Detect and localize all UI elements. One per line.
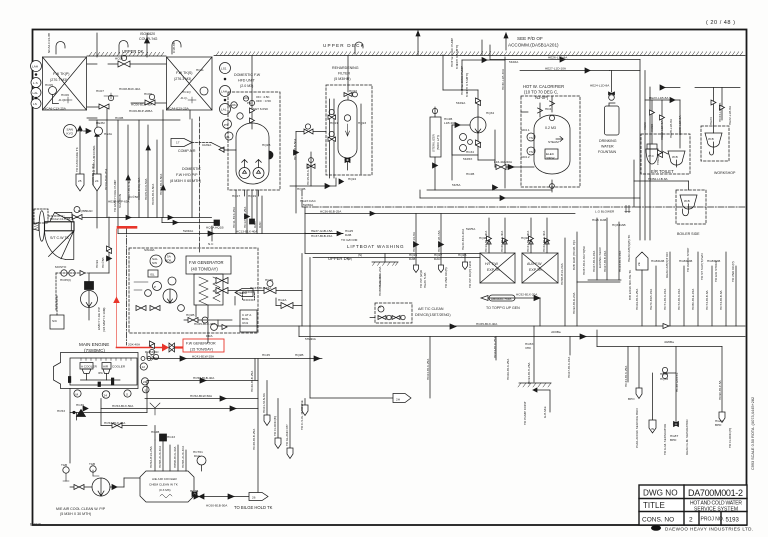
svg-text:SW: SW [152, 261, 157, 265]
valve pair on suction [72, 215, 82, 220]
svg-text:DAD: DAD [152, 350, 159, 354]
svg-text:HC65(I): HC65(I) [60, 278, 71, 282]
svg-text:COMP AIR: COMP AIR [178, 149, 196, 153]
engine outlet lines [70, 359, 258, 494]
svg-text:SUCTION: SUCTION [118, 194, 122, 208]
svg-text:5193: 5193 [726, 518, 740, 524]
svg-text:DRA: DRA [206, 334, 213, 338]
svg-text:HC11: HC11 [196, 68, 204, 72]
svg-text:EXP TK: EXP TK [529, 268, 542, 272]
svg-text:HQ34: HQ34 [486, 111, 494, 115]
ER toilet group [641, 98, 690, 175]
topping up line [481, 295, 540, 326]
svg-text:TO G.M. SEPARATOR: TO G.M. SEPARATOR [663, 423, 667, 455]
svg-text:STERILIZER: STERILIZER [432, 133, 436, 152]
svg-text:TO EM'CY FIRE PUMP: TO EM'CY FIRE PUMP [113, 180, 117, 212]
upper deck hatched line [87, 52, 745, 56]
svg-text:MCA2-C1X-6B: MCA2-C1X-6B [50, 217, 70, 221]
propeller / stern tube S/T CW TK [33, 211, 74, 260]
ME air cool clean pump [63, 466, 140, 496]
valve at red arrow [169, 343, 175, 352]
svg-text:EM'CY F.RE P/P: EM'CY F.RE P/P [97, 307, 101, 330]
svg-text:S: S [145, 389, 147, 393]
svg-text:5K45X: 5K45X [463, 157, 472, 161]
mid horizontal long lines [64, 190, 745, 258]
svg-text:T&B: T&B [89, 462, 95, 466]
svg-text:NCA4-E2X-25A: NCA4-E2X-25A [167, 107, 190, 111]
svg-text:COOLER: COOLER [112, 365, 126, 369]
bilge pentagon [192, 492, 268, 501]
svg-text:TO VACUUM COND.: TO VACUUM COND. [92, 145, 96, 174]
top hot water mains [490, 45, 650, 240]
svg-text:STEAM: STEAM [548, 140, 559, 144]
svg-text:DAB: DAB [686, 259, 692, 263]
svg-text:HQ2B: HQ2B [262, 143, 270, 147]
svg-text:(3/4 M3/H X 16M): (3/4 M3/H X 16M) [102, 308, 106, 332]
svg-text:HC4B: HC4B [151, 430, 159, 434]
svg-text:W.B: W.B [672, 155, 678, 159]
svg-text:HC87-B1C-8A HQ59: HC87-B1C-8A HQ59 [582, 246, 586, 275]
wire tank interconnects [87, 117, 97, 119]
svg-text:B/B E/CW 300.HG TK: B/B E/CW 300.HG TK [628, 269, 632, 300]
svg-text:HOT W. CALORIFIER: HOT W. CALORIFIER [523, 84, 564, 89]
svg-text:HE3A: HE3A [104, 132, 113, 136]
svg-text:HE27-L1D-10A: HE27-L1D-10A [545, 67, 567, 71]
svg-text:HE26-L1D-8A: HE26-L1D-8A [548, 56, 568, 60]
svg-text:TO G/D RM: TO G/D RM [341, 238, 358, 242]
svg-text:LS: LS [33, 102, 37, 106]
expansion tank AUX [522, 218, 558, 283]
svg-text:HC67-B1X-15A: HC67-B1X-15A [567, 356, 571, 378]
svg-text:HC63-B1X-15A: HC63-B1X-15A [618, 250, 622, 272]
svg-text:TS: TS [529, 136, 533, 140]
svg-text:(10 TO 70 DEG C,: (10 TO 70 DEG C, [524, 90, 558, 95]
svg-text:HC34: HC34 [466, 150, 474, 154]
svg-text:ISO 6620: ISO 6620 [140, 32, 155, 36]
svg-text:TO PUMP CONT: TO PUMP CONT [523, 401, 527, 425]
svg-text:AIR: AIR [103, 365, 109, 369]
rehardening filter [290, 56, 372, 214]
svg-text:SET 6.0SK: SET 6.0SK [253, 107, 269, 111]
svg-text:HC3B-B1B-15A: HC3B-B1B-15A [437, 229, 441, 252]
svg-text:24: 24 [143, 380, 147, 384]
svg-text:HC43: HC43 [167, 435, 175, 439]
svg-text:HC23-L1B-8A: HC23-L1B-8A [718, 102, 722, 122]
svg-text:T&B: T&B [61, 463, 67, 467]
svg-text:HE3M: HE3M [96, 121, 105, 125]
svg-text:HC39: HC39 [76, 403, 84, 407]
svg-text:DA700M001-2: DA700M001-2 [688, 488, 743, 498]
svg-text:TO C.S.W. MACHINE: TO C.S.W. MACHINE [300, 400, 304, 430]
svg-text:HE70-B1B-15A: HE70-B1B-15A [649, 288, 653, 310]
sankyo circle pair left [64, 125, 103, 138]
svg-text:HC67-B1B-15A: HC67-B1B-15A [603, 250, 607, 272]
svg-text:HQ19: HQ19 [248, 194, 256, 198]
svg-text:DOMESTIC F.W: DOMESTIC F.W [234, 73, 261, 77]
svg-text:DAD: DAD [253, 221, 257, 228]
2H pentagon [310, 358, 411, 403]
svg-text:C993 SCALE 0.50 ROTA. (X073,X4: C993 SCALE 0.50 ROTA. (X073,X445+282 [751, 397, 755, 470]
C AT A BOIL unit [240, 292, 257, 332]
svg-text:HE40-B1X-20A: HE40-B1X-20A [461, 228, 465, 250]
svg-text:HC46-B1B-25A: HC46-B1B-25A [250, 370, 254, 392]
AE air cooler chem clean tank [140, 403, 204, 502]
liftboat drains to deck [372, 214, 468, 273]
svg-text:HC13-B1X-40A: HC13-B1X-40A [236, 230, 258, 234]
svg-text:LAL: LAL [221, 108, 227, 112]
svg-text:WATER: WATER [601, 145, 614, 149]
svg-text:DAB: DAB [409, 257, 415, 261]
svg-text:HQ1A HQ1B: HQ1A HQ1B [206, 226, 224, 230]
svg-text:HC5A-B1X-25A: HC5A-B1X-25A [149, 445, 153, 468]
svg-text:N.C: N.C [208, 242, 214, 246]
svg-text:HC19-B1X-40A: HC19-B1X-40A [484, 230, 488, 252]
svg-text:S: S [126, 393, 128, 397]
svg-text:NCA6-C1X-25A: NCA6-C1X-25A [44, 107, 67, 111]
svg-text:F.W GENERATOR: F.W GENERATOR [189, 260, 224, 265]
svg-text:0.2 M3: 0.2 M3 [545, 126, 556, 130]
ground hatch pump cont [518, 383, 551, 412]
svg-text:HC4B: HC4B [190, 489, 198, 493]
svg-text:BOILER SIDE: BOILER SIDE [677, 232, 700, 236]
steam supply risers near calorifier [443, 55, 505, 180]
svg-text:HQ24: HQ24 [348, 177, 356, 181]
svg-text:HE22-L1B-8A: HE22-L1B-8A [728, 105, 732, 125]
svg-text:REAR A/B(S)T DO: REAR A/B(S)T DO [665, 252, 669, 278]
svg-text:FOUNTAIN: FOUNTAIN [598, 150, 617, 154]
svg-text:ACCOMM.(DA5B1A201): ACCOMM.(DA5B1A201) [508, 43, 559, 48]
svg-text:HC53-B1X-50A: HC53-B1X-50A [112, 404, 134, 408]
svg-text:OFF : 0.5K: OFF : 0.5K [256, 99, 272, 103]
comp air arrow [171, 139, 224, 150]
wire collector top [89, 119, 180, 121]
svg-text:HC67-B1X-15A: HC67-B1X-15A [592, 250, 596, 272]
svg-text:(S): (S) [358, 253, 362, 257]
svg-text:EASING SERV: EASING SERV [598, 246, 602, 268]
svg-text:PS: PS [247, 101, 251, 105]
svg-text:DAB: DAB [658, 259, 664, 263]
accomm boundary dash-dot [302, 206, 745, 208]
svg-text:5K/5A: 5K/5A [452, 183, 461, 187]
svg-text:LAL: LAL [33, 91, 39, 95]
svg-text:PURLACOW SERVICE BRO: PURLACOW SERVICE BRO [635, 408, 639, 448]
valves on tank lines [118, 61, 130, 67]
svg-text:DAB: DAB [600, 218, 606, 222]
svg-text:A03.2: A03.2 [230, 103, 238, 107]
flow arrows on verticals [126, 145, 165, 190]
svg-text:HC1Q: HC1Q [182, 90, 191, 94]
svg-text:8 M3/H X 5 MTH): 8 M3/H X 5 MTH) [455, 45, 459, 69]
svg-text:TITLE: TITLE [643, 501, 665, 510]
svg-text:(15 TON/DAY): (15 TON/DAY) [190, 348, 213, 352]
svg-text:TO FLOOR(H): TO FLOOR(H) [728, 428, 732, 448]
svg-text:2: 2 [689, 517, 693, 524]
svg-text:HC93-B1H-25A: HC93-B1H-25A [527, 362, 531, 384]
svg-text:HC38 G8/TBL: HC38 G8/TBL [675, 372, 679, 392]
svg-text:HEAV 5.3B: HEAV 5.3B [423, 273, 427, 288]
expansion tank M/T [480, 218, 515, 283]
svg-text:A03.: A03. [243, 96, 250, 100]
svg-text:AL: AL [226, 135, 230, 139]
svg-text:UPPER DK: UPPER DK [328, 256, 350, 261]
svg-text:SW40A: SW40A [144, 248, 155, 252]
svg-text:5W40A: 5W40A [183, 229, 194, 233]
svg-text:HG2A: HG2A [278, 298, 287, 302]
vertical drops right of engine [255, 359, 308, 459]
HC41 line [141, 341, 322, 361]
svg-text:HC5B-AUX-40A: HC5B-AUX-40A [158, 445, 162, 468]
svg-text:F.W GENERATOR: F.W GENERATOR [186, 342, 216, 346]
svg-text:HB5B-B1X-40A: HB5B-B1X-40A [173, 446, 177, 468]
svg-text:(7S80MC): (7S80MC) [84, 348, 105, 353]
svg-text:L.S: L.S [33, 81, 38, 85]
svg-text:LS1: LS1 [221, 67, 227, 71]
svg-text:(P): (P) [348, 257, 352, 261]
svg-text:N3-0P): N3-0P) [535, 95, 549, 100]
svg-text:HQ27: HQ27 [521, 236, 529, 240]
svg-text:HEAR A/B(S)(B) TK: HEAR A/B(S)(B) TK [627, 234, 631, 262]
svg-text:HC99: HC99 [95, 260, 99, 268]
svg-text:(5 M3/HR): (5 M3/HR) [334, 77, 351, 81]
svg-text:TS: TS [529, 150, 533, 154]
svg-text:HQ2B: HQ2B [458, 253, 466, 257]
svg-text:HQ21: HQ21 [330, 121, 338, 125]
svg-text:HC2B: HC2B [466, 172, 474, 176]
main engine [54, 353, 160, 399]
svg-text:HC44-B1X-25A: HC44-B1X-25A [624, 365, 628, 387]
svg-text:BPD: BPD [670, 438, 677, 442]
bottom small fittings [188, 318, 198, 323]
svg-text:C1B-8B: C1B-8B [172, 42, 176, 53]
svg-text:5H/4DA: 5H/4DA [305, 337, 317, 341]
svg-text:HC66-B1X-25A: HC66-B1X-25A [506, 358, 510, 380]
goosenecks / vents top [56, 31, 508, 57]
svg-text:ISL: ISL [150, 273, 155, 277]
svg-text:M: M [76, 393, 79, 397]
svg-text:HC5B: HC5B [650, 124, 654, 132]
svg-text:HC05-B1X-50A: HC05-B1X-50A [151, 183, 155, 205]
svg-text:MAIN ENGINE: MAIN ENGINE [79, 342, 109, 347]
svg-text:S/C: S/C [52, 319, 58, 323]
svg-text:HC05-C1X-50A: HC05-C1X-50A [144, 178, 148, 200]
right group A small drains [588, 218, 621, 280]
S/C box [50, 296, 64, 329]
svg-text:F.W HYD P/P: F.W HYD P/P [176, 173, 198, 177]
svg-text:UN1: UN1 [242, 321, 248, 325]
svg-text:HQ3 DAB: HQ3 DAB [612, 223, 626, 227]
svg-text:HC5B-AUX-40A: HC5B-AUX-40A [181, 445, 185, 468]
svg-text:(8 M3/H X 60 MTH): (8 M3/H X 60 MTH) [170, 179, 201, 183]
2E pentagon riser [636, 252, 648, 326]
svg-text:HC22-B1X-40A: HC22-B1X-40A [542, 230, 546, 252]
boiler side [634, 150, 706, 224]
svg-text:SERVICE SYSTEM: SERVICE SYSTEM [694, 507, 738, 513]
svg-text:24: 24 [104, 394, 108, 398]
svg-text:HC57-B1B-40A: HC57-B1B-40A [193, 376, 215, 380]
svg-text:BOIL: BOIL [165, 259, 172, 263]
wire main cold feed [118, 233, 343, 235]
svg-text:HC30-L1B-40A: HC30-L1B-40A [501, 68, 505, 90]
svg-text:2E: 2E [637, 262, 641, 266]
sterilizer [430, 107, 441, 190]
svg-text:HGB: HGB [679, 259, 686, 263]
svg-text:HC72-B1X-15A: HC72-B1X-15A [677, 288, 681, 310]
svg-text:HC53: HC53 [57, 409, 65, 413]
svg-text:(5 M3/H X 30 MTH): (5 M3/H X 30 MTH) [60, 512, 91, 516]
svg-text:HC15-B1X-40A: HC15-B1X-40A [306, 163, 310, 185]
svg-text:AD4.1: AD4.1 [521, 128, 530, 132]
svg-text:TO TOPP'G UP GEN: TO TOPP'G UP GEN [486, 306, 520, 310]
svg-text:HQ22: HQ22 [349, 89, 357, 93]
hot w circ pump [452, 60, 495, 160]
svg-text:M/E AIR COOL CLEAN W. P/P: M/E AIR COOL CLEAN W. P/P [56, 507, 106, 511]
svg-text:TO BILGE HOLD TK: TO BILGE HOLD TK [234, 505, 273, 510]
svg-text:HC06-B4X-20A: HC06-B4X-20A [104, 168, 108, 190]
svg-text:KYO: KYO [67, 132, 74, 136]
svg-text:L16-40A/40A: L16-40A/40A [494, 160, 513, 164]
svg-text:AB00001 H/4B: AB00001 H/4B [491, 297, 511, 301]
HCT01 dial [197, 456, 206, 471]
left vertical pipe bundle [76, 55, 200, 252]
FW generator dashed box [129, 248, 258, 343]
svg-text:HOT W. CIRC PUMP: HOT W. CIRC PUMP [450, 38, 454, 67]
svg-text:(40 TON/DAY): (40 TON/DAY) [191, 267, 218, 272]
svg-text:HC92-B1D-20A: HC92-B1D-20A [572, 292, 576, 314]
svg-text:HE23: HE23 [709, 117, 713, 125]
svg-text:HC47-B1X-15A: HC47-B1X-15A [250, 286, 272, 290]
svg-text:HC0B: HC0B [115, 116, 123, 120]
svg-text:F.W TK(S): F.W TK(S) [176, 71, 193, 75]
svg-text:AUX F.W: AUX F.W [527, 262, 542, 266]
svg-text:TO CASCADE TK: TO CASCADE TK [75, 146, 79, 172]
svg-text:HC3B-B1X-8A: HC3B-B1X-8A [412, 231, 416, 252]
svg-text:DAB: DAB [345, 233, 351, 237]
svg-text:HC90-B1P-5A: HC90-B1P-5A [718, 379, 722, 400]
svg-text:25: 25 [78, 179, 82, 183]
svg-text:LIFTBOAT WASHING: LIFTBOAT WASHING [347, 244, 404, 249]
svg-text:REHARDENING: REHARDENING [332, 66, 359, 70]
riser feeds [651, 100, 653, 144]
svg-text:E/R TOILET: E/R TOILET [651, 169, 674, 174]
svg-text:HE28-L1B-8A: HE28-L1B-8A [669, 118, 673, 138]
svg-text:HQ23: HQ23 [358, 121, 366, 125]
svg-text:HCB2-L1B-8A: HCB2-L1B-8A [648, 177, 669, 181]
svg-text:5W36A: 5W36A [303, 203, 314, 207]
svg-text:HC20-B1X-40A: HC20-B1X-40A [500, 230, 504, 252]
drinking water fountain [605, 71, 620, 136]
svg-text:TO 2ND DK(B): TO 2ND DK(B) [444, 267, 448, 288]
emcy fire pump [81, 217, 112, 320]
svg-text:HQ29: HQ29 [479, 236, 487, 240]
svg-text:EXP TK: EXP TK [487, 268, 500, 272]
svg-text:HC08: HC08 [115, 57, 123, 61]
svg-text:DAEWOO HEAVY INDUSTRIES LTD.: DAEWOO HEAVY INDUSTRIES LTD. [665, 527, 754, 532]
svg-text:DIAL: DIAL [194, 454, 201, 458]
svg-text:HC45: HC45 [262, 353, 270, 357]
wire liftboat washing supply [305, 213, 575, 215]
svg-text:S/T C.W TK: S/T C.W TK [50, 236, 70, 240]
svg-text:HC48-B1B-25A: HC48-B1B-25A [252, 428, 256, 450]
svg-text:NCA2-C1X-8B: NCA2-C1X-8B [47, 33, 51, 53]
svg-text:A/E AIR COOLER: A/E AIR COOLER [152, 477, 178, 481]
dash-dot boundary left [126, 228, 128, 345]
svg-text:DAC: DAC [434, 257, 441, 261]
svg-text:SEE P/D OF: SEE P/D OF [517, 36, 543, 41]
svg-text:26: 26 [252, 496, 256, 500]
svg-text:HC06: HC06 [61, 93, 69, 97]
svg-text:5W/5A: 5W/5A [466, 227, 476, 231]
svg-text:x0/0Ba: x0/0Ba [551, 330, 561, 334]
svg-text:24: 24 [95, 179, 99, 183]
TO CASCADE / VACUUM arrows [79, 131, 81, 174]
WC [647, 144, 657, 149]
svg-text:-D-Q-: -D-Q- [180, 96, 188, 100]
svg-text:PS: PS [224, 123, 228, 127]
svg-text:DAC: DAC [258, 221, 262, 228]
SW box left [34, 209, 64, 223]
svg-text:HC8B-B1X-10A: HC8B-B1X-10A [378, 273, 382, 296]
svg-text:HGB: HGB [592, 218, 599, 222]
svg-text:WORKSHOP: WORKSHOP [714, 171, 736, 175]
svg-text:( 20 / 48 ): ( 20 / 48 ) [706, 20, 735, 26]
svg-text:P: P [154, 285, 156, 289]
svg-text:TO IST DK(P) FWD: TO IST DK(P) FWD [468, 260, 472, 288]
svg-text:TO 2ND DK(P): TO 2ND DK(P) [731, 261, 735, 282]
svg-text:F.W TK(P): F.W TK(P) [53, 72, 70, 76]
svg-text:LAH: LAH [221, 90, 227, 94]
right-of-tankS level circles [220, 63, 234, 141]
svg-text:BPO: BPO [628, 397, 635, 401]
svg-text:STEAM: STEAM [236, 291, 247, 295]
svg-text:HG2X DAC: HG2X DAC [300, 199, 317, 203]
svg-text:FILTER: FILTER [338, 72, 351, 76]
svg-text:G.B.M.E: G.B.M.E [543, 406, 547, 418]
svg-text:TO E/R STORE: TO E/R STORE [714, 260, 718, 282]
svg-text:E-1016: E-1016 [30, 523, 41, 527]
svg-text:HE24-L1D-8A: HE24-L1D-8A [590, 84, 610, 88]
svg-text:HGB: HGB [651, 259, 658, 263]
AE T/C clean device [370, 303, 412, 323]
dashed boundary domestic [199, 117, 201, 252]
svg-text:TO ST SUP(T,FWD: TO ST SUP(T,FWD [700, 253, 704, 280]
svg-text:AD4.2: AD4.2 [521, 155, 530, 159]
svg-text:HE29: HE29 [643, 122, 647, 130]
svg-text:8 M3/H X 5 MTH): 8 M3/H X 5 MTH) [465, 73, 469, 97]
svg-text:HD4.: HD4. [545, 107, 552, 111]
svg-text:PGB: PGB [145, 350, 152, 354]
svg-text:HC61-S1N-8A: HC61-S1N-8A [262, 392, 266, 413]
svg-text:DOMESTIC: DOMESTIC [182, 167, 201, 171]
svg-text:TO GLAND P/P: TO GLAND P/P [285, 424, 289, 446]
svg-text:20X-40A: 20X-40A [128, 343, 141, 347]
svg-text:HC60-B1B-50A: HC60-B1B-50A [206, 504, 228, 508]
svg-text:HC54-B1X-25A: HC54-B1X-25A [104, 421, 126, 425]
svg-text:40/0Ba: 40/0Ba [664, 340, 674, 344]
svg-text:5K49A: 5K49A [456, 101, 466, 105]
svg-text:HFD UNIT: HFD UNIT [238, 79, 256, 83]
svg-text:HC71-B1X-15A: HC71-B1X-15A [663, 288, 667, 310]
svg-text:30KW: 30KW [546, 156, 555, 160]
filter inlet [296, 131, 326, 133]
svg-text:HC73-B1B-8A: HC73-B1B-8A [705, 289, 709, 310]
svg-text:HC11-B1X-25A: HC11-B1X-25A [232, 206, 236, 228]
svg-text:HC09-B1X-50A: HC09-B1X-50A [159, 173, 163, 195]
svg-text:MOSTO: MOSTO [55, 265, 67, 269]
mid supply verticals [565, 232, 620, 326]
svg-text:TO FLOOR(B): TO FLOOR(B) [273, 416, 277, 436]
svg-text:HC65-B1X-40A: HC65-B1X-40A [194, 322, 216, 326]
svg-text:HGB: HGB [707, 259, 714, 263]
